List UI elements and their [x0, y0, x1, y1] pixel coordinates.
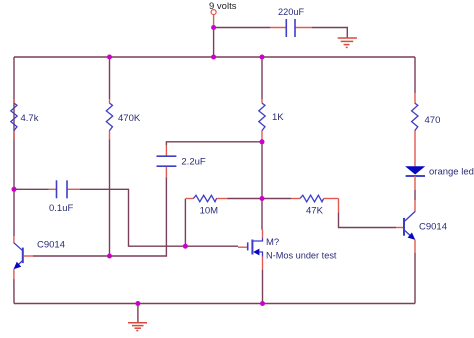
transistor M? N-Mos under test: [238, 230, 337, 270]
junction node bottom rail source: [260, 301, 265, 306]
svg-text:9 volts: 9 volts: [209, 1, 237, 12]
wire bottom rail: [14, 303, 415, 305]
wire right vertical upper: [414, 57, 416, 93]
svg-text:470: 470: [425, 115, 441, 126]
junction node B 470K bottom: [107, 254, 112, 259]
wire Q1 emitter to bottom rail: [13, 279, 15, 304]
junction node top rail / 470K: [107, 55, 112, 60]
resistor R3 1K: [259, 99, 284, 140]
transistor Q2 C9014 (right, NPN): [396, 200, 447, 253]
wire right vertical lower: [414, 190, 416, 304]
svg-text:47K: 47K: [306, 206, 324, 217]
junction node top rail / 9v: [211, 55, 216, 60]
wire Q1 base to node B: [33, 255, 110, 257]
wire top rail: [14, 56, 415, 58]
resistor R4 470: [412, 93, 441, 166]
wire 470K branch vertical: [109, 57, 111, 256]
capacitor C2 0.1uF: [49, 180, 81, 214]
svg-text:C9014: C9014: [419, 222, 447, 233]
svg-text:orange led: orange led: [429, 167, 474, 178]
svg-text:0.1uF: 0.1uF: [49, 203, 73, 214]
resistor R1 4.7k: [11, 99, 39, 140]
svg-text:470K: 470K: [118, 113, 141, 124]
svg-text:4.7k: 4.7k: [21, 113, 39, 124]
capacitor C3 2.2uF: [157, 145, 206, 178]
junction node 9v tap: [211, 25, 216, 30]
svg-text:220uF: 220uF: [278, 7, 304, 17]
svg-text:1K: 1K: [272, 112, 284, 123]
resistor R2 470K: [106, 99, 141, 140]
junction node gate net: [183, 244, 188, 249]
ground top right: [338, 38, 357, 47]
wire N-Mos source to bottom rail: [262, 270, 264, 304]
resistor R6 47K: [291, 195, 339, 216]
svg-text:10M: 10M: [200, 206, 219, 217]
wire C2 0.1uF left: [14, 188, 49, 190]
wire bottom rail to ground: [137, 304, 139, 323]
junction node 0.1uF left: [12, 187, 17, 192]
wire C5 220uF to ground: [312, 28, 347, 38]
wire 1K branch vertical: [261, 57, 263, 230]
junction node 1K bottom / 2.2uF: [260, 139, 265, 144]
LED D1 orange led: [405, 166, 474, 190]
wire C3 2.2uF bottom to node B: [110, 177, 167, 256]
junction node drain net: [260, 196, 265, 201]
wire 47K left: [262, 198, 291, 200]
wire C2 0.1uF right to N-Mos gate: [80, 189, 238, 246]
wire 9v to top rail: [213, 28, 215, 58]
transistor Q1 C9014 (left, NPN): [14, 236, 66, 279]
wire 1K bottom to C3 2.2uF top: [166, 142, 262, 145]
svg-text:M?: M?: [266, 237, 279, 248]
junction node top rail / 1K: [260, 55, 265, 60]
wire 47K right to Q2 base: [339, 213, 397, 228]
wire 9v to C5 220uF: [214, 27, 270, 29]
capacitor C5 220uF: [270, 7, 312, 37]
wire 10M left leg: [184, 199, 186, 247]
svg-text:N-Mos under test: N-Mos under test: [266, 251, 337, 261]
svg-text:C9014: C9014: [37, 240, 65, 251]
svg-text:2.2uF: 2.2uF: [181, 157, 205, 168]
resistor R5 10M: [186, 195, 228, 216]
wire left vertical: [13, 57, 15, 236]
ground bottom middle: [128, 323, 147, 331]
wire 10M right to 1K branch: [228, 198, 263, 200]
power terminal 9 volts: [209, 1, 237, 28]
junction node bottom rail ground: [135, 301, 140, 306]
